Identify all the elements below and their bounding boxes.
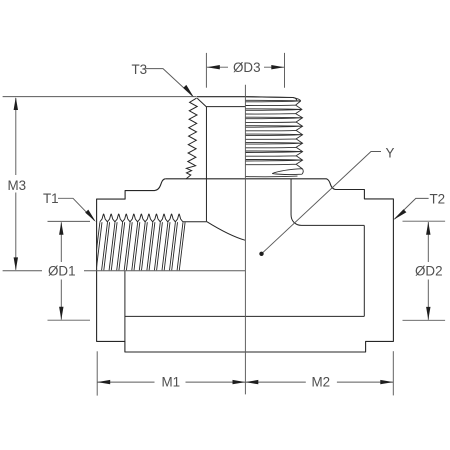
female thread flank lines xyxy=(94,222,185,270)
OD2 arrows xyxy=(426,222,430,235)
M1/M2 extension lines xyxy=(96,351,98,395)
M1 arrows xyxy=(97,380,110,384)
M3 top extension line xyxy=(3,96,197,98)
Y leader dot xyxy=(259,252,263,256)
OD1 arrows xyxy=(59,222,63,235)
OD3 dimension line xyxy=(207,66,228,68)
svg-text:Y: Y xyxy=(386,145,395,160)
svg-text:M3: M3 xyxy=(8,178,27,193)
centerline / M3 bottom reference xyxy=(3,270,42,272)
Y leader xyxy=(262,152,382,254)
male thread crest lines (branch right half) xyxy=(245,97,303,177)
arrowheads xyxy=(14,65,431,384)
OD1 dimension line xyxy=(60,222,62,262)
right port bore fillet and walls xyxy=(291,179,364,226)
T2 leader arrow xyxy=(393,209,406,220)
svg-text:M2: M2 xyxy=(312,375,331,390)
female thread crest sawtooth (left port) xyxy=(100,214,183,222)
OD1 extension lines xyxy=(48,220,91,222)
svg-text:M1: M1 xyxy=(162,374,181,389)
svg-text:ØD3: ØD3 xyxy=(233,60,261,75)
svg-text:T1: T1 xyxy=(43,191,59,206)
tee body outer profile xyxy=(97,97,394,352)
branch bore wall (section) xyxy=(125,98,364,341)
OD3 arrows xyxy=(207,65,220,69)
T2 leader xyxy=(395,198,429,219)
svg-text:ØD2: ØD2 xyxy=(415,264,443,279)
T3 leader xyxy=(146,69,193,96)
M3 dimension line xyxy=(15,98,17,175)
bore transition curve xyxy=(206,221,245,240)
svg-text:T3: T3 xyxy=(132,62,148,77)
M3 arrows xyxy=(14,97,18,110)
OD2 extension lines xyxy=(403,220,446,222)
svg-text:T2: T2 xyxy=(430,192,446,207)
M2 dimension line xyxy=(245,381,305,383)
T1 leader xyxy=(58,198,95,220)
OD2 dimension line xyxy=(427,222,429,262)
M1 dimension line xyxy=(98,381,155,383)
svg-text:ØD1: ØD1 xyxy=(48,263,76,278)
T1 leader arrow xyxy=(85,210,96,222)
thread root line left port to bore xyxy=(183,221,206,223)
branch male thread profile (section, left side) xyxy=(186,98,197,179)
M2 arrows xyxy=(245,380,258,384)
vertical centerline of tee xyxy=(244,85,246,395)
T3 leader arrow xyxy=(183,85,194,97)
OD3 extension lines xyxy=(205,53,207,88)
